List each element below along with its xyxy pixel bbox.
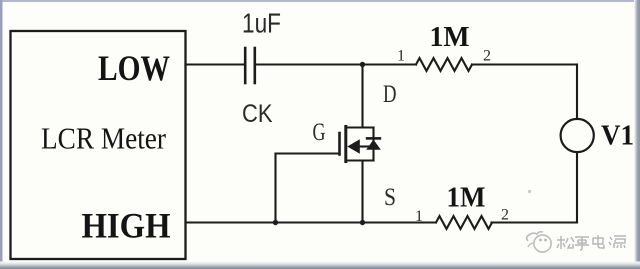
svg-text:LCR Meter: LCR Meter [41,121,167,156]
body diode bar [366,137,381,140]
node junction top [360,62,365,67]
char 哥 [575,237,589,250]
speck artifact [528,190,531,193]
watermark text 松哥电源 [557,235,626,250]
transistor Q1 source wire [361,161,363,223]
transistor Q1 drain wire [361,65,363,128]
resistor R2 1M zigzag [436,216,492,229]
Q1 gate bar [338,133,341,155]
wire source node to R2 pin1 [363,221,437,223]
wire LOW to capacitor [186,63,245,65]
wire gate node to source node [276,221,363,223]
svg-text:1M: 1M [430,22,470,53]
svg-text:D: D [383,81,397,108]
svg-text:G: G [313,119,326,146]
wire corner down to V1 [576,65,578,120]
svg-text:LOW: LOW [98,48,170,88]
wire bottom right segment [492,221,578,223]
svg-text:HIGH: HIGH [82,206,171,246]
wire V1 to bottom corner [576,152,578,222]
svg-text:CK: CK [242,100,273,128]
Q1 right vertical [372,128,374,161]
wire capacitor to node D [256,63,363,65]
Q1 channel bar [344,127,347,162]
watermark icon [527,232,551,252]
resistor R1 1M zigzag [416,58,472,71]
wire HIGH to gate node [186,221,276,223]
wire node to resistor R1 pin1 [363,63,417,65]
svg-text:1: 1 [397,48,405,65]
Q1 body arrow [347,139,360,154]
svg-text:V1: V1 [601,120,634,152]
char 松 [557,236,574,249]
svg-text:S: S [384,184,396,211]
body diode triangle [366,140,381,150]
svg-text:1uF: 1uF [242,8,281,39]
capacitor CK plate left [244,48,247,83]
transistor Q1 MOSFET body [340,127,374,162]
voltage source V1 circle [561,119,594,152]
Q1 top lead [346,126,374,128]
LCR meter box [11,31,186,259]
Q1 body lead [358,145,370,147]
svg-text:2: 2 [483,48,491,65]
node junction gate [273,220,278,225]
wire R1 pin2 to corner [472,63,577,65]
node junction source [360,220,365,225]
svg-text:1M: 1M [447,183,486,214]
char 电 [593,235,604,248]
Q1 bottom lead [346,159,374,161]
char 源 [609,236,626,248]
svg-text:2: 2 [501,207,509,224]
wire gate riser [276,154,340,223]
capacitor CK plate right [254,48,257,83]
svg-text:1: 1 [415,208,423,225]
